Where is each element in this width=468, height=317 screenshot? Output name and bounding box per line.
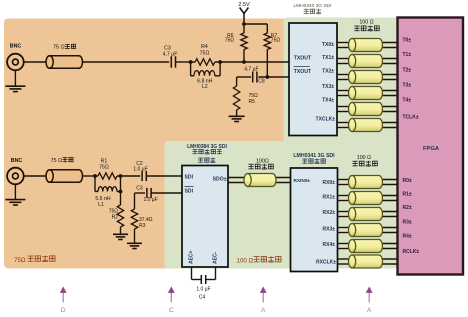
- svg-text:A: A: [367, 307, 372, 314]
- node: [119, 174, 123, 178]
- svg-text:RCLK±: RCLK±: [403, 249, 420, 255]
- svg-text:R4: R4: [201, 44, 208, 50]
- svg-text:TX0±: TX0±: [322, 42, 334, 48]
- svg-text:TX1±: TX1±: [322, 55, 334, 61]
- svg-text:RX0±: RX0±: [323, 180, 336, 186]
- resistor R2: [109, 205, 124, 234]
- wire differential pair: [337, 59, 398, 64]
- label 100-ohm coupled lines (top): [354, 20, 379, 31]
- label 75-ohm signal launch: [14, 256, 55, 264]
- annotation arrow C: [168, 287, 175, 315]
- svg-text:T0±: T0±: [403, 38, 412, 44]
- svg-text:LMH0384 3G SDI: LMH0384 3G SDI: [187, 144, 227, 150]
- svg-text:TX2±: TX2±: [322, 68, 334, 74]
- coupled line T1 100-ohm: [349, 39, 383, 52]
- svg-text:AEC+: AEC+: [188, 250, 194, 264]
- svg-text:100 Ω: 100 Ω: [357, 155, 371, 161]
- ground: [229, 116, 245, 121]
- wire differential pair: [338, 196, 398, 201]
- resistor R4: [191, 44, 221, 65]
- svg-text:75 Ω: 75 Ω: [53, 45, 65, 51]
- ground: [5, 184, 25, 205]
- wire: [237, 76, 252, 78]
- resistor R3: [131, 209, 152, 243]
- svg-text:R5: R5: [249, 99, 256, 105]
- ground: [5, 70, 25, 91]
- coupled line T7 100-ohm: [244, 159, 276, 187]
- wire: [24, 175, 46, 177]
- wire: [83, 61, 170, 63]
- equalizer U2 LMH0384: [182, 144, 228, 267]
- svg-text:RX4±: RX4±: [323, 242, 336, 248]
- node: [218, 60, 222, 64]
- background green digital region upper: [284, 18, 399, 269]
- node: [119, 190, 123, 194]
- coupled line T12 100-ohm: [349, 240, 383, 253]
- svg-text:4.7 µF: 4.7 µF: [244, 67, 258, 73]
- capacitor C2: [121, 161, 183, 181]
- svg-text:C3: C3: [136, 185, 143, 191]
- ground: [127, 243, 142, 248]
- svg-text:RX2±: RX2±: [323, 210, 336, 216]
- coupled line T10 100-ohm: [349, 208, 383, 221]
- svg-text:BNC: BNC: [10, 44, 22, 50]
- power 2.5V: [238, 2, 250, 24]
- wire: [220, 61, 289, 63]
- wire differential pair: [337, 107, 398, 112]
- svg-text:R4±: R4±: [403, 233, 412, 239]
- wire: [83, 175, 96, 177]
- resistor R7: [264, 24, 280, 77]
- capacitor C8: [244, 67, 265, 85]
- svg-text:AEC-: AEC-: [212, 251, 218, 264]
- svg-text:R3: R3: [139, 223, 146, 229]
- node: [189, 60, 193, 64]
- svg-text:75 Ω: 75 Ω: [51, 158, 63, 164]
- svg-text:1.0 µF: 1.0 µF: [133, 167, 147, 173]
- coupled line T6 100-ohm: [349, 119, 383, 132]
- svg-text:75Ω: 75Ω: [271, 37, 281, 43]
- serializer U1 LMH0340: [289, 3, 337, 135]
- resistor R6: [225, 24, 247, 62]
- svg-text:1.0 µF: 1.0 µF: [196, 287, 210, 293]
- svg-text:75Ω: 75Ω: [225, 37, 235, 43]
- svg-text:TX3±: TX3±: [322, 84, 334, 90]
- wire differential pair: [337, 75, 398, 80]
- wire differential pair: [338, 180, 398, 185]
- ground: [113, 234, 128, 239]
- node: [265, 75, 269, 79]
- svg-text:TXOUT: TXOUT: [294, 56, 312, 62]
- wire differential pair: [337, 123, 398, 128]
- capacitor C3 (lower): [135, 185, 183, 203]
- label 100-ohm signal launch: [237, 256, 282, 264]
- svg-text:R3±: R3±: [403, 220, 412, 226]
- svg-text:TXOUT: TXOUT: [294, 69, 312, 75]
- capacitor C4: [192, 267, 216, 301]
- svg-text:100 Ω: 100 Ω: [237, 257, 254, 264]
- svg-text:R1±: R1±: [403, 191, 412, 197]
- coupled line T13 100-ohm: [349, 255, 383, 268]
- inductor L2: [191, 62, 221, 90]
- svg-text:C4: C4: [199, 295, 206, 301]
- wire differential pair: [338, 228, 398, 233]
- svg-text:TX4±: TX4±: [322, 97, 334, 103]
- svg-text:SDI: SDI: [185, 174, 194, 180]
- wire differential pair: [338, 244, 398, 249]
- BNC connector J2: [7, 158, 24, 184]
- wire differential pair: [337, 43, 398, 48]
- wire: [176, 61, 191, 63]
- svg-text:C8: C8: [258, 79, 265, 85]
- svg-text:RXCLK±: RXCLK±: [316, 260, 336, 266]
- svg-text:RX3±: RX3±: [323, 227, 336, 233]
- svg-text:100 Ω: 100 Ω: [359, 20, 373, 26]
- transmission line 75-ohm coax (bottom): [46, 157, 83, 182]
- svg-text:LMH0340 3G SDI: LMH0340 3G SDI: [293, 3, 331, 9]
- svg-text:75Ω: 75Ω: [99, 165, 109, 171]
- svg-text:SDO±: SDO±: [213, 176, 227, 182]
- svg-text:LMH0341 3G SDI: LMH0341 3G SDI: [293, 153, 335, 159]
- resistor R5: [233, 77, 258, 116]
- svg-text:T1±: T1±: [403, 52, 412, 58]
- svg-text:T3±: T3±: [403, 83, 412, 89]
- svg-text:D: D: [61, 307, 66, 314]
- svg-text:A: A: [261, 307, 266, 314]
- svg-text:L1: L1: [98, 202, 104, 208]
- annotation arrow A: [260, 287, 267, 315]
- wire differential pair: [337, 91, 398, 96]
- svg-text:1.0 µF: 1.0 µF: [143, 197, 157, 203]
- node: [93, 174, 97, 178]
- annotation arrow D: [60, 287, 67, 315]
- inductor L1: [95, 176, 121, 208]
- svg-text:R0±: R0±: [403, 178, 412, 184]
- svg-text:TCLK±: TCLK±: [403, 115, 419, 121]
- svg-text:T4±: T4±: [403, 97, 412, 103]
- label 100-ohm coupled lines (bottom): [352, 155, 377, 166]
- svg-text:RX1±: RX1±: [323, 195, 336, 201]
- coupled line T8 100-ohm: [349, 176, 383, 189]
- coupled line T5 100-ohm: [349, 103, 383, 116]
- svg-text:75Ω: 75Ω: [249, 93, 259, 99]
- svg-text:100Ω: 100Ω: [256, 159, 269, 165]
- svg-text:C: C: [169, 307, 174, 314]
- wire 2.5V rail: [244, 23, 267, 25]
- svg-text:R2: R2: [112, 214, 119, 220]
- coupled line T4 100-ohm: [349, 87, 383, 100]
- wire differential pair: [228, 178, 291, 183]
- FPGA U5: [398, 18, 464, 275]
- wire: [258, 76, 289, 78]
- background orange analog region: [4, 19, 286, 269]
- transmission line 75-ohm coax (top): [46, 44, 83, 68]
- wire differential pair: [338, 212, 398, 217]
- coupled line T11 100-ohm: [349, 224, 383, 237]
- svg-text:75Ω: 75Ω: [14, 257, 26, 264]
- coupled line T3 100-ohm: [349, 71, 383, 84]
- svg-text:4.7 µF: 4.7 µF: [163, 51, 178, 57]
- svg-text:RXIN0±: RXIN0±: [294, 178, 311, 183]
- svg-text:T2±: T2±: [403, 67, 412, 73]
- wire: [134, 193, 136, 209]
- wire differential pair: [338, 259, 398, 264]
- wire: [120, 176, 122, 205]
- svg-text:TXCLK±: TXCLK±: [316, 116, 336, 122]
- coupled line T9 100-ohm: [349, 192, 383, 205]
- annotation arrow A: [366, 287, 373, 315]
- node: [242, 60, 246, 64]
- svg-text:SDI: SDI: [185, 188, 194, 194]
- svg-text:L2: L2: [202, 84, 208, 90]
- BNC connector J1: [7, 44, 24, 71]
- wire: [24, 61, 46, 63]
- svg-text:BNC: BNC: [11, 158, 23, 164]
- svg-text:FPGA: FPGA: [423, 146, 440, 152]
- deserializer U4 LMH0341: [291, 153, 338, 272]
- coupled line T2 100-ohm: [349, 55, 383, 68]
- node: [242, 22, 246, 26]
- svg-text:75Ω: 75Ω: [200, 51, 210, 57]
- capacitor C3: [163, 46, 178, 68]
- background green digital region lower: [165, 141, 365, 269]
- svg-text:R2±: R2±: [403, 205, 412, 211]
- resistor R1: [95, 159, 121, 180]
